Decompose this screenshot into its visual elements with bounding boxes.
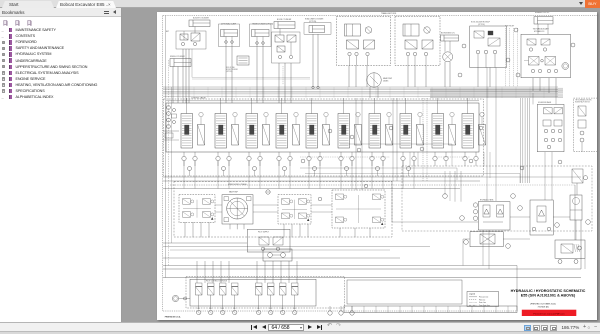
valve: control section 8 spool [400,114,412,149]
port: section 7 work ports [370,156,374,160]
svg-text:MAIN PUMP: MAIN PUMP [229,191,238,194]
banner: watermark [522,310,577,316]
port: section 4 work ports [277,156,281,160]
port: section 6 drain [345,167,349,171]
gauge: pilot accumulator [172,295,178,301]
svg-text:PILOT SUPPLY: PILOT SUPPLY [258,232,269,234]
svg-text:SOL: SOL [257,308,260,310]
port: section 6 work ports [339,156,343,160]
bookmarks sidebar [0,8,122,322]
pump: pilot supply block [247,229,290,252]
wire: long crossing verticals [355,98,357,190]
wire: long return runs [163,242,247,244]
svg-text:BKT: BKT [166,31,169,33]
valve: control section 4 spool [276,114,288,149]
svg-text:SWING CYLINDER: SWING CYLINDER [170,56,186,58]
port: section 4 drain [283,167,287,171]
svg-text:SOL: SOL [281,308,284,310]
port: section 10 work ports [463,156,467,160]
bus: dense segment right [430,87,563,89]
document canvas [123,8,600,322]
valve: pilot solenoid manifold outline [190,279,316,306]
valve: control section 3 spool [246,114,258,149]
svg-text:SOL: SOL [209,308,212,310]
svg-text:Legend: Legend [469,293,475,295]
bus: pilot signal lines [163,86,558,88]
motor: travel brake valve group [332,190,385,228]
bottom toolbar [0,322,600,331]
wire: left edge risers [165,16,167,278]
balloon callouts upper right [514,28,518,32]
port: section 1 work ports [182,156,186,160]
svg-text:(OPTION): (OPTION) [226,71,233,73]
svg-text:CONTROL VALVE: CONTROL VALVE [191,96,207,99]
motor: LH travel [337,17,391,66]
wire: tank and cooler runs [392,221,478,223]
bus: verticals into band [165,87,167,98]
valve: two-speed spool [237,56,249,65]
svg-text:SOL: SOL [269,308,272,310]
wire: mid-right routing [340,143,452,145]
cylinder: clamp (optional) [219,24,240,47]
valve: control section 6 spool [338,114,350,149]
valve: bypass relief [555,240,585,258]
valve: solenoid 6 [268,283,275,286]
valve: solenoid 3 [220,283,227,286]
port: section 5 drain [313,167,317,171]
wire: aux drops [532,78,534,91]
valve: control section 2 spool [215,114,227,149]
wire: work lines to machinery [183,161,185,189]
svg-text:SOL: SOL [221,308,224,310]
svg-text:BUCKET CYLINDER: BUCKET CYLINDER [193,18,210,20]
port: section 3 drain [253,167,257,171]
svg-text:SOL: SOL [233,308,236,310]
port: section 9 work ports [433,156,437,160]
sheet frame left [162,16,164,312]
svg-text:SOLENOID VALVE: SOLENOID VALVE [538,101,551,104]
svg-text:MAIN PUMP: MAIN PUMP [383,77,392,80]
wire: arm drops [256,48,258,103]
port: section 8 drain [407,167,411,171]
svg-text:THE SCHEMATIC SHOWN: THE SCHEMATIC SHOWN [575,99,591,102]
svg-text:(OPTIONAL) CLAMP: (OPTIONAL) CLAMP [221,23,236,26]
valve: section 10 compensator [479,125,486,146]
port: section 5 work ports [307,156,311,160]
port: manifold extra ports [328,311,332,315]
enclosure: return and cooling group [402,166,592,231]
svg-text:TRAVEL MOTORS: TRAVEL MOTORS [381,12,397,15]
port: section 8 work ports [401,156,405,160]
svg-text:TWO WAY AUXILIARY: TWO WAY AUXILIARY [533,28,550,31]
valve: check low [572,169,583,183]
svg-text:PRINTED IN U.S.A.: PRINTED IN U.S.A. [165,316,181,319]
valve: solenoid 7 [280,283,287,286]
port: section 2 drain [222,167,226,171]
filter: pilot filter [530,200,553,235]
svg-text:SOL: SOL [293,308,296,310]
cooler: oil cooler [470,232,503,247]
wire: blade drops [312,34,314,87]
valve: control section 10 spool [462,114,474,149]
svg-text:UPPER WORKS / TRAVEL: UPPER WORKS / TRAVEL [228,183,247,186]
port: section 7 drain [376,167,380,171]
motor: RH travel [395,17,440,66]
wire: clamp drops [225,47,227,103]
wire: drops to solenoid manifold [196,261,198,283]
svg-text:Pilot Line: Pilot Line [479,298,485,301]
valve: section 6 compensator [355,125,362,146]
svg-text:HYDRAULIC / HYDROSTATIC SCHEMA: HYDRAULIC / HYDROSTATIC SCHEMATIC [511,289,586,293]
cylinder: bucket [189,20,210,27]
valve: main control valve outline [166,103,479,152]
svg-text:PORT RELIEF: PORT RELIEF [505,26,514,28]
pump: main piston pump [222,195,253,224]
wire: dashed pilot drops [505,28,507,87]
wire: bank lower runs [163,176,480,178]
sheet frame bottom [163,310,517,312]
valve: control section 7 spool [369,114,381,149]
port: section 1 drain [188,167,192,171]
svg-text:BREAKER CIRCUIT: BREAKER CIRCUIT [535,12,550,14]
svg-text:(OPTION): (OPTION) [309,21,317,23]
wire: travel drops [348,66,350,88]
valve: section 5 compensator [323,125,330,146]
box: swivel joint [347,280,462,304]
port: section 3 work ports [247,156,251,160]
svg-text:Drain Line: Drain Line [479,301,486,304]
svg-text:(PRINTED OCTOBER 2015): (PRINTED OCTOBER 2015) [530,304,556,306]
valve: section 8 compensator [417,125,424,146]
valve: solenoid 5 [256,283,263,286]
wire: machinery links [215,204,222,206]
valve: solenoid 4 [232,283,239,286]
wire: upper horizontal run [192,76,310,78]
balloon callouts right [443,194,448,199]
valve: section 9 compensator [449,125,456,146]
svg-text:Printed from manual-PDF.com: Printed from manual-PDF.com [533,312,564,315]
svg-text:E55 (S/N AJ1911001 & ABOVE): E55 (S/N AJ1911001 & ABOVE) [521,293,576,297]
accumulator: pilot [570,195,582,220]
bus: vertical pilot band [520,98,522,183]
wire: machinery drops [184,222,186,237]
svg-text:7317618 (B): 7317618 (B) [537,306,548,308]
valve: solenoid 1 [196,283,203,286]
legend box [467,292,499,307]
gauge: aux pressure [562,63,569,70]
svg-text:ROD OF THE: ROD OF THE [226,67,235,69]
valve: main relief [167,106,171,110]
valve: check [266,190,270,194]
svg-text:BOOM CYLINDER: BOOM CYLINDER [277,19,292,21]
svg-text:Pressure Line: Pressure Line [479,296,488,299]
svg-text:PILOT CONTROL SOLENOIDS: PILOT CONTROL SOLENOIDS [206,281,227,283]
valve: section 3 compensator [263,125,270,146]
svg-text:(OPTION): (OPTION) [478,24,485,26]
balloon callouts mid [328,129,332,133]
motor: RH travel final drive [278,195,311,224]
svg-text:BOOM SWING CYL: BOOM SWING CYL [441,33,455,35]
valve: section 1 compensator [198,125,205,146]
motor: swing [443,52,453,62]
valve: boom lock manifold [272,32,301,63]
valve: bucket holding manifold [176,31,206,49]
cylinder: boom [274,22,295,29]
svg-text:ROAD LINER CYLINDER: ROAD LINER CYLINDER [305,18,324,21]
pump: pilot gear [367,73,382,88]
svg-text:HYDRAULIC TANK: HYDRAULIC TANK [480,198,494,201]
wire: boom drops [278,63,280,103]
motor: LH travel final drive [179,195,215,223]
svg-text:BOOM CYLINDER: BOOM CYLINDER [226,69,238,71]
svg-text:THUMB CYLINDER (OPTION): THUMB CYLINDER (OPTION) [252,24,274,26]
valve: section 2 compensator [232,125,239,146]
valve: solenoid 2 [208,283,215,286]
valve: control section 1 spool [181,114,193,149]
valve: control section 5 spool [306,114,318,149]
valve: solenoid 8 [292,283,299,286]
tab bar [0,0,600,8]
svg-text:Case Drain Line: Case Drain Line [479,304,490,307]
enclosure: pump and travel motor group [174,182,392,238]
valve: section 7 compensator [386,125,393,146]
sheet frame top [163,15,597,17]
valve: pattern change [263,249,292,261]
svg-text:ROCK SLUICER HOOKUP: ROCK SLUICER HOOKUP [471,22,490,24]
port: section 2 work ports [216,156,220,160]
valve: control section 9 spool [432,114,444,149]
valve: section 4 compensator [293,125,300,146]
cylinder: arm (optional thumb) [250,24,272,47]
wire: bucket drops to bus [182,49,184,103]
svg-text:SOL: SOL [197,308,200,310]
